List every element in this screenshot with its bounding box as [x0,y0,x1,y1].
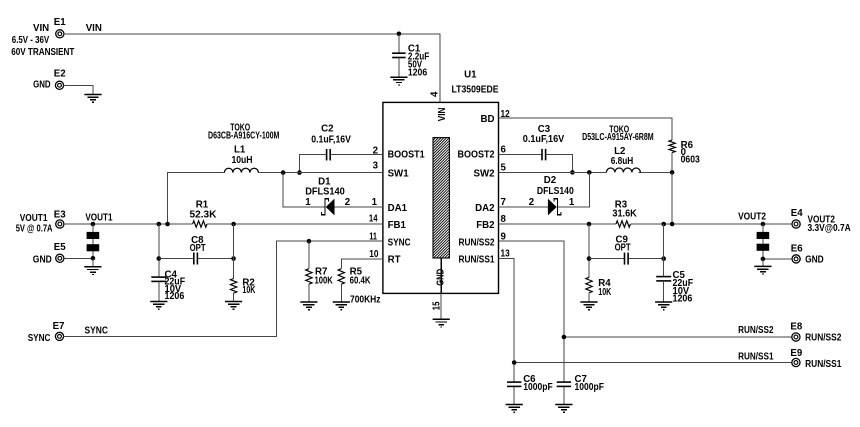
wire link to ground [92,258,94,267]
svg-text:E9: E9 [790,348,802,359]
svg-text:RUN/SS2: RUN/SS2 [805,333,841,344]
svg-text:L1: L1 [234,145,246,156]
resistor R6 [669,140,700,173]
svg-text:5V @ 0.7A: 5V @ 0.7A [16,224,53,235]
svg-text:0.1uF,16V: 0.1uF,16V [311,135,351,146]
svg-text:VIN: VIN [86,23,102,34]
capacitor C9 [615,235,631,265]
pin name SW2 [474,169,495,180]
pin name BOOST1 [388,150,426,161]
terminal E4 (VOUT2) [738,208,851,234]
inductor L2 [582,125,654,173]
pin name RUN/SS2 [459,237,495,248]
svg-text:BOOST1: BOOST1 [388,150,426,161]
junction node RUN/SS1 [512,360,517,365]
ground (C5) [655,302,672,310]
wire RT net [341,259,383,269]
pin number 1 (DA1) [372,197,378,208]
wire C8 row [159,258,234,260]
junction node E6 [761,257,766,262]
pin number 5 [501,163,507,174]
ferrite link stack (VOUT2-GND) [757,224,770,259]
pin name DA1 [388,203,408,214]
pin 15 label [431,301,442,310]
ground (R7) [300,302,317,310]
svg-text:10K: 10K [598,287,611,298]
junction node VOUT2 riser [670,222,675,227]
svg-text:3.3V@0.7A: 3.3V@0.7A [808,223,851,234]
svg-text:5: 5 [501,163,507,174]
svg-text:1206: 1206 [673,294,693,305]
junction node C5 top [661,222,666,227]
svg-text:700KHz: 700KHz [350,294,381,305]
svg-text:13: 13 [501,248,511,259]
svg-text:GND: GND [805,255,824,266]
svg-text:VIN: VIN [437,108,448,122]
resistor R2 [230,224,255,302]
pin number 3 [373,160,379,171]
svg-text:31.6K: 31.6K [612,209,636,220]
wire BOOST2 net [499,155,573,173]
svg-text:DA2: DA2 [475,203,494,214]
junction node C8 / R2 [231,256,236,261]
capacitor C8 [190,235,206,264]
ground (C4) [150,302,167,310]
junction node SW2 / R6 [670,170,675,175]
wire E5 to link [64,257,93,259]
svg-text:D63CB-A916CY-100M: D63CB-A916CY-100M [208,131,279,142]
svg-text:FB2: FB2 [476,220,494,231]
junction node C4 / C8 [157,256,162,261]
svg-text:VOUT1: VOUT1 [20,213,48,224]
svg-text:52.3K: 52.3K [190,210,217,221]
capacitor C7 [557,374,604,405]
svg-text:D2: D2 [544,175,556,186]
terminal E9 (RUN/SS1) [790,348,842,370]
wire VOUT1 / FB1 net [64,212,383,224]
pin name FB2 [476,220,494,231]
svg-text:1000pF: 1000pF [575,382,605,393]
U1 exposed pad (hatched) [433,121,449,293]
junction node VIN / C1 [397,32,402,37]
svg-text:E7: E7 [53,321,65,332]
pin number 7 [501,197,506,208]
wire RUN/SS2 net [499,241,792,382]
junction node VOUT2 / link [761,222,766,227]
wire D1 cathode riser [283,173,324,207]
op-amp U1 LT3509EDE body [383,70,499,294]
junction node C4 branch [157,222,162,227]
svg-text:1: 1 [305,197,311,208]
junction node R4 / C9 [587,256,592,261]
pin number 2 [373,145,378,156]
ground (C7) [555,405,572,413]
resistor R5 [338,267,381,306]
svg-text:GND: GND [33,255,52,266]
svg-text:OPT: OPT [615,242,631,253]
pin number 11 [369,231,377,242]
svg-text:E5: E5 [54,242,66,253]
diode D1 DFLS140 [305,176,350,215]
svg-text:DFLS140: DFLS140 [537,186,574,197]
svg-text:RUN/SS2: RUN/SS2 [738,325,773,336]
svg-text:2: 2 [529,197,534,208]
svg-text:3: 3 [373,160,379,171]
pin number 6 [501,144,507,155]
junction node FB2 / R4 [587,222,592,227]
svg-text:SYNC: SYNC [388,237,411,248]
svg-text:LT3509EDE: LT3509EDE [452,85,500,96]
ground (E5) [84,267,101,275]
wire BD net [499,118,673,140]
pin name SW1 [388,169,410,180]
pin number 9 [501,231,507,242]
ground (C1) [390,77,407,85]
svg-text:10: 10 [369,249,378,260]
svg-text:60V TRANSIENT: 60V TRANSIENT [11,47,74,58]
junction node SW2 / D2 [587,170,592,175]
resistor R1 [190,200,217,228]
junction node C9 / C5 [661,256,666,261]
svg-text:BOOST2: BOOST2 [458,150,495,161]
terminal E8 (RUN/SS2) [790,321,841,343]
resistor R3 [612,200,636,228]
wire SW1 net [168,173,383,224]
svg-text:14: 14 [369,214,378,225]
capacitor C3 [523,124,565,161]
wire SW2 to VOUT2 riser [671,172,673,224]
pin VIN label (rotated) [437,108,448,122]
pin name RT [388,255,401,266]
wire SYNC net [63,241,383,336]
ground (R4) [580,302,597,310]
svg-text:DFLS140: DFLS140 [305,186,345,197]
resistor R4 [586,224,612,302]
pin number 8 [501,214,507,225]
svg-text:1000pF: 1000pF [523,382,553,393]
diode D2 DFLS140 [529,175,575,215]
wire pin 15 to ground [440,293,442,319]
svg-text:RUN/SS1: RUN/SS1 [459,255,496,266]
wire FB2 / VOUT2 net [499,223,793,225]
svg-text:10uH: 10uH [231,155,252,166]
svg-text:E1: E1 [54,17,66,28]
pin name RUN/SS1 [459,255,496,266]
wire VIN net (E1 to pin 4) [64,23,441,102]
ground (C6) [506,405,523,413]
ground (E2) [84,95,101,103]
capacitor C2 [311,124,351,161]
svg-text:FB1: FB1 [388,220,407,231]
svg-text:RUN/SS1: RUN/SS1 [805,359,842,370]
junction node SYNC / R7 [307,239,312,244]
ferrite link stack (VOUT1-GND) [87,224,100,258]
svg-text:1206: 1206 [408,68,428,79]
wire SW2 net [499,171,673,173]
pin number 13 [501,248,511,259]
svg-text:BD: BD [481,114,495,125]
svg-text:11: 11 [369,231,377,242]
svg-text:VOUT1: VOUT1 [85,212,113,223]
svg-text:DA1: DA1 [388,203,408,214]
svg-text:6.5V - 36V: 6.5V - 36V [12,35,50,46]
svg-text:U1: U1 [464,70,477,81]
ground (E6) [754,266,771,274]
svg-text:1: 1 [372,197,378,208]
pin name DA2 [475,203,494,214]
svg-text:100K: 100K [315,276,333,287]
junction node C2 / SW1 [297,170,302,175]
terminal E2 (GND) [33,68,66,90]
pin number 10 [369,249,378,260]
svg-text:10K: 10K [242,285,255,296]
wire C9 row [589,258,664,260]
resistor R7 [306,241,333,302]
svg-text:VIN: VIN [33,23,49,34]
pin number 14 [369,214,378,225]
junction node E5 [91,256,96,261]
svg-text:RT: RT [388,255,401,266]
ground (pin 15) [433,319,450,327]
svg-text:60.4K: 60.4K [350,276,371,287]
svg-text:SW2: SW2 [474,169,495,180]
svg-text:SYNC: SYNC [28,333,51,344]
capacitor C4 [151,224,185,302]
svg-text:4: 4 [430,91,441,97]
junction node L1 riser [165,222,170,227]
svg-text:RUN/SS2: RUN/SS2 [459,237,495,248]
svg-text:GND: GND [33,79,51,90]
svg-text:0603: 0603 [681,155,701,166]
pin name FB1 [388,220,407,231]
ground (R5) [333,302,350,310]
inductor L1 [208,122,279,172]
svg-text:E8: E8 [790,321,802,332]
pin GND label (rotated) [435,269,446,286]
svg-text:E4: E4 [791,208,803,219]
svg-text:SYNC: SYNC [85,326,108,337]
svg-text:GND: GND [435,269,446,286]
pin 4 label [430,91,441,97]
junction node FB1 [231,222,236,227]
svg-text:OPT: OPT [190,243,206,254]
svg-text:RUN/SS1: RUN/SS1 [738,351,774,362]
svg-text:0.1uF,16V: 0.1uF,16V [523,134,565,145]
svg-text:E2: E2 [54,68,66,79]
wire DA2 net [499,206,548,208]
capacitor C1 [392,34,429,79]
wire D2 cathode riser [558,172,589,207]
wire link to E6 [763,258,792,260]
terminal E5 (GND) [33,242,66,266]
pin number 12 [501,109,510,120]
svg-text:7: 7 [501,197,506,208]
terminal E7 (SYNC) [28,321,65,344]
junction node VOUT1 / link [91,222,96,227]
junction node RUN/SS2 [562,335,567,340]
svg-text:1206: 1206 [165,291,185,302]
pin name SYNC [388,237,411,248]
terminal E1 (VIN input) [11,17,74,58]
capacitor C6 [507,374,553,405]
pin name BD [481,114,495,125]
svg-text:D53LC-A915AY-6R8M: D53LC-A915AY-6R8M [582,132,654,143]
pin name BOOST2 [458,150,495,161]
terminal E3 (VOUT1) [16,210,67,235]
svg-text:6.8uH: 6.8uH [611,156,634,167]
junction node C3 / SW2 [570,170,575,175]
wire E2 to ground [63,85,93,94]
svg-text:6: 6 [501,144,507,155]
svg-text:E6: E6 [791,243,803,254]
svg-text:2: 2 [345,197,350,208]
terminal E6 (GND) [791,243,824,265]
capacitor C5 [656,224,693,305]
svg-text:E3: E3 [54,210,66,221]
svg-text:VOUT2: VOUT2 [738,212,766,223]
wire RUN/SS1 net [499,258,792,382]
svg-text:C2: C2 [321,124,333,135]
svg-text:1: 1 [569,197,575,208]
ground (R2) [225,302,242,310]
svg-text:9: 9 [501,231,507,242]
wire link to ground [762,259,764,267]
wire DA1 net [335,206,383,208]
svg-text:SW1: SW1 [388,169,410,180]
junction node SW1 / D1 [281,170,286,175]
wire BOOST1 net [300,155,383,173]
